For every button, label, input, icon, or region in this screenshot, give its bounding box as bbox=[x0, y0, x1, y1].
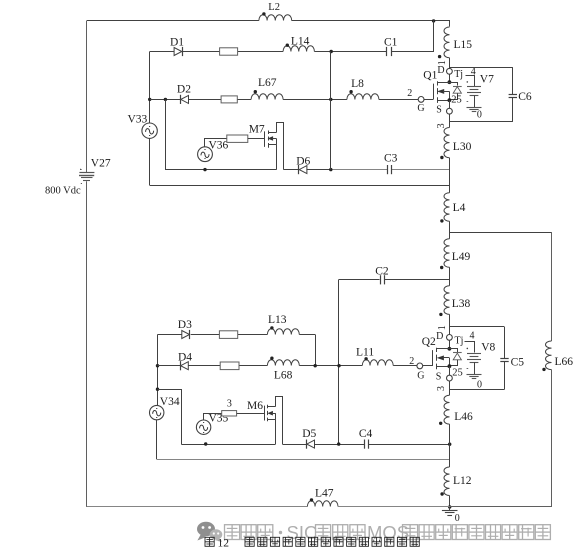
svg-text:D: D bbox=[437, 65, 444, 76]
svg-text:G: G bbox=[417, 103, 424, 114]
node: V36 bottom junction bbox=[203, 168, 206, 171]
wire: V33 to return bbox=[149, 138, 151, 185]
label pin 3 (Q2 source) bbox=[436, 386, 447, 391]
pin: Q1 gate terminal bbox=[418, 97, 424, 103]
svg-text:L67: L67 bbox=[258, 77, 277, 89]
node: V35 bottom junction bbox=[204, 442, 207, 445]
capacitor C5 bbox=[500, 357, 524, 369]
ground 0 (V7) bbox=[467, 108, 482, 112]
svg-text:2: 2 bbox=[409, 356, 414, 367]
label pin 1 (Q1 drain) bbox=[437, 60, 448, 65]
label 0 (V7) bbox=[477, 110, 482, 121]
node: C4 bus junction bbox=[448, 443, 451, 446]
resistor R-D1 bbox=[220, 48, 238, 55]
pin: Q2 source terminal bbox=[447, 375, 453, 381]
ground 0 (main) bbox=[442, 511, 458, 516]
wire: top bus right segment bbox=[292, 21, 450, 27]
diode D6 bbox=[296, 156, 310, 175]
wire: upper return row bbox=[150, 185, 450, 187]
node: gate row junction (upper) bbox=[329, 98, 332, 101]
pin: Q2 drain terminal bbox=[447, 335, 453, 341]
svg-text:C6: C6 bbox=[518, 91, 532, 103]
wire: source to S pin bbox=[449, 100, 451, 108]
wire: D6-C3 row bbox=[283, 169, 449, 171]
source V34 bbox=[150, 405, 164, 419]
label 4 (Q2) bbox=[470, 330, 475, 341]
resistor R-D3 bbox=[219, 331, 237, 339]
mosfet Q2 body bbox=[433, 348, 450, 370]
svg-text:L68: L68 bbox=[274, 369, 293, 381]
battery V8 bbox=[467, 348, 482, 369]
wire: L15 to D pin bbox=[449, 58, 451, 69]
wire: M6 source down bbox=[275, 419, 277, 444]
node: V35 branch junction bbox=[156, 388, 159, 391]
watermark text: SIC MOS bbox=[225, 522, 551, 543]
label 4 (Q1) bbox=[471, 67, 476, 78]
resistor R-M7gate bbox=[227, 135, 248, 142]
label S (Q2) bbox=[436, 372, 442, 383]
svg-text:25: 25 bbox=[452, 367, 463, 378]
wire: V7 to ground bbox=[474, 96, 476, 108]
label G (Q1) bbox=[417, 103, 424, 114]
resistor R-M6gate bbox=[222, 411, 237, 416]
svg-text:Tj: Tj bbox=[455, 335, 464, 346]
label Tj (Q2) bbox=[455, 335, 464, 346]
wire: source to S pin (Q2) bbox=[449, 366, 451, 375]
wire: V36 top lead bbox=[205, 139, 227, 147]
svg-text:12: 12 bbox=[218, 537, 230, 549]
svg-text:S: S bbox=[436, 105, 442, 116]
svg-text:M6: M6 bbox=[247, 400, 263, 412]
node: L68-L13 junction bbox=[314, 364, 317, 367]
wire: resistor to M7 gate bbox=[248, 138, 265, 140]
wire: D3 row left vertical bbox=[157, 335, 159, 406]
wire: M6 drain over-down bbox=[276, 397, 283, 445]
wire: C6 loop bottom bbox=[449, 121, 512, 123]
svg-text:V33: V33 bbox=[128, 114, 148, 126]
svg-text:L8: L8 bbox=[351, 78, 364, 90]
diode D5 bbox=[302, 428, 316, 449]
svg-text:L38: L38 bbox=[452, 298, 471, 310]
svg-text:3: 3 bbox=[227, 399, 232, 410]
svg-text:800 Vdc: 800 Vdc bbox=[45, 186, 81, 197]
inductor L38 bbox=[439, 286, 470, 316]
inductor L15 bbox=[438, 27, 472, 58]
wire: gate-net vertical (upper) bbox=[330, 52, 332, 170]
svg-text:1: 1 bbox=[437, 325, 448, 330]
svg-text:L47: L47 bbox=[315, 488, 334, 500]
transistor M7 bbox=[249, 124, 277, 148]
label Q2 bbox=[422, 336, 436, 348]
inductor L67 bbox=[251, 77, 283, 100]
inductor L46 bbox=[439, 395, 473, 425]
node: V36 branch junction bbox=[164, 98, 167, 101]
capacitor C1 bbox=[384, 36, 398, 56]
battery V27 bbox=[79, 169, 94, 184]
svg-text:G: G bbox=[417, 370, 424, 381]
svg-text:L11: L11 bbox=[356, 346, 374, 358]
capacitor C3 bbox=[384, 153, 398, 175]
label Tj (Q1) bbox=[454, 69, 463, 80]
pin: Q1 source terminal bbox=[447, 108, 453, 114]
wire: resistor to M6 gate bbox=[237, 413, 265, 415]
inductor L8 bbox=[347, 78, 379, 100]
svg-text:25: 25 bbox=[451, 94, 462, 105]
svg-text:V8: V8 bbox=[481, 341, 495, 353]
svg-text:V34: V34 bbox=[160, 396, 180, 408]
label V27 bbox=[91, 158, 111, 170]
inductor L30 bbox=[440, 128, 471, 160]
svg-text:M7: M7 bbox=[249, 124, 265, 136]
source V33 bbox=[142, 123, 157, 138]
inductor L12 bbox=[440, 467, 471, 496]
inductor L68 bbox=[267, 357, 299, 382]
svg-text:D4: D4 bbox=[178, 351, 192, 363]
wire: C6 loop top bbox=[449, 67, 512, 69]
svg-text:L2: L2 bbox=[268, 2, 280, 13]
inductor L47 bbox=[307, 488, 338, 507]
wire: D1 row left vertical bbox=[149, 52, 151, 123]
wire: C5 loop top bbox=[449, 326, 504, 328]
svg-text:D5: D5 bbox=[302, 428, 316, 440]
label V33 bbox=[128, 114, 148, 126]
label V7 bbox=[480, 74, 494, 86]
svg-text:D2: D2 bbox=[177, 84, 191, 96]
label 3 (M6 gate res) bbox=[227, 399, 232, 410]
node: Q1 drain bbox=[448, 80, 452, 84]
svg-text:C3: C3 bbox=[384, 153, 398, 165]
capacitor C2 bbox=[375, 266, 389, 285]
svg-text:L13: L13 bbox=[268, 314, 287, 326]
wire: left bus lower bbox=[86, 181, 88, 507]
wire: M7 source down bbox=[276, 145, 278, 170]
node: gate row junction (lower) bbox=[337, 364, 340, 367]
wire: D5-C4 row bbox=[283, 444, 450, 446]
label pin 3 (Q1 source) bbox=[436, 123, 447, 128]
wire: bus L49-L38 bbox=[449, 267, 451, 286]
wire: D3-D4 right vertical bbox=[315, 335, 317, 366]
svg-text:Q1: Q1 bbox=[423, 70, 437, 82]
wire: bus L12-ground bbox=[449, 496, 451, 508]
wire: M7 drain over-down bbox=[277, 123, 284, 170]
svg-text:L30: L30 bbox=[453, 141, 472, 153]
wire: D3 row segments bbox=[158, 334, 316, 336]
wire: C6 lower lead bbox=[512, 97, 514, 121]
wire: far-right vertical lower bbox=[450, 370, 552, 507]
label 25 (Q1) bbox=[451, 94, 462, 105]
label 25 (Q2) bbox=[452, 367, 463, 378]
svg-text:V27: V27 bbox=[91, 158, 111, 170]
wire: D pin to drain node bbox=[449, 74, 451, 82]
wire: V36 loop left+bottom bbox=[166, 100, 277, 170]
svg-text:C2: C2 bbox=[375, 266, 389, 278]
svg-text:D6: D6 bbox=[296, 156, 310, 168]
ground 0 (V8) bbox=[467, 375, 482, 379]
wire: C5 upper lead bbox=[504, 327, 506, 358]
wire: C2 row bbox=[339, 279, 450, 281]
node: C1 top junction bbox=[432, 19, 435, 22]
wire: C1 to top bus bbox=[392, 21, 434, 52]
wire: gate pin to Q2 bbox=[423, 365, 433, 367]
wire: V35 top lead bbox=[204, 414, 222, 421]
svg-text:C5: C5 bbox=[511, 357, 525, 369]
inductor L14 bbox=[283, 35, 314, 51]
svg-text:4: 4 bbox=[470, 330, 475, 341]
svg-text:Tj: Tj bbox=[454, 69, 463, 80]
label Q1 bbox=[423, 70, 437, 82]
svg-text:Q2: Q2 bbox=[422, 336, 436, 348]
svg-text:L46: L46 bbox=[454, 411, 473, 423]
svg-text:C1: C1 bbox=[384, 36, 398, 48]
source V35 bbox=[196, 420, 210, 434]
svg-text:2: 2 bbox=[407, 88, 412, 99]
svg-text:L15: L15 bbox=[454, 39, 473, 51]
node: D2 row / V33 junction bbox=[148, 98, 151, 101]
label S (Q1) bbox=[436, 105, 442, 116]
transistor M6 bbox=[247, 400, 276, 421]
diode D1 bbox=[170, 37, 184, 57]
diode D2 bbox=[177, 84, 191, 105]
wire: ground stub bbox=[449, 507, 451, 511]
wire: bus L46-L12 bbox=[449, 424, 451, 467]
svg-text:S: S bbox=[436, 372, 442, 383]
wire: V35 loop bottom bbox=[182, 444, 276, 446]
capacitor C4 bbox=[359, 428, 373, 449]
node: D4 row junction bbox=[156, 364, 159, 367]
wire: S pin to bus (Q2) bbox=[449, 381, 451, 395]
wire: top bus left segment bbox=[87, 20, 259, 22]
diode D4 bbox=[178, 351, 192, 370]
diode D3 bbox=[178, 319, 192, 339]
wire: lower return row bbox=[157, 459, 450, 461]
node: Q1 source bbox=[448, 98, 452, 102]
wire: gate pin to Q1 bbox=[424, 99, 433, 101]
wire: C6 upper lead bbox=[512, 67, 514, 94]
wire: C5 loop bottom bbox=[449, 389, 504, 391]
svg-text:0: 0 bbox=[455, 513, 460, 524]
pin: Q1 drain terminal bbox=[447, 68, 453, 74]
wire: bus L30-L4 bbox=[449, 158, 451, 193]
diode Q1-body bbox=[450, 83, 462, 100]
label V34 bbox=[160, 396, 180, 408]
wire: Tj lead (Q2) bbox=[465, 342, 475, 353]
label pin 1 (Q2 drain) bbox=[437, 325, 448, 330]
wire: left bus upper bbox=[86, 21, 88, 172]
node: Q2 source bbox=[448, 364, 452, 368]
label G (Q2) bbox=[417, 370, 424, 381]
inductor L2 bbox=[259, 2, 292, 21]
battery V7 bbox=[467, 81, 482, 101]
node: ground junction bbox=[448, 505, 451, 508]
wire: V35 branch bbox=[158, 390, 182, 445]
svg-text:3: 3 bbox=[436, 386, 447, 391]
wire: D1 row segments bbox=[150, 51, 387, 53]
inductor L13 bbox=[267, 314, 299, 335]
label pin 2 (Q1 gate) bbox=[407, 88, 412, 99]
caption text bbox=[205, 537, 419, 549]
watermark logo bbox=[197, 522, 222, 542]
svg-text:V36: V36 bbox=[209, 140, 229, 152]
wire: bottom bus right bbox=[338, 506, 450, 508]
wire: far-right vertical upper bbox=[551, 232, 553, 341]
wire: S pin to bus bbox=[449, 114, 451, 127]
label V35 bbox=[209, 413, 229, 425]
wire: D2 row segments bbox=[150, 99, 419, 101]
label D (Q2) bbox=[436, 331, 443, 342]
svg-text:L12: L12 bbox=[453, 475, 472, 487]
svg-text:V7: V7 bbox=[480, 74, 494, 86]
inductor L49 bbox=[440, 239, 470, 269]
capacitor C6 bbox=[509, 91, 532, 103]
mosfet Q1 body bbox=[434, 81, 450, 103]
node: C4 row junction bbox=[337, 442, 340, 445]
node: Q2 drain bbox=[448, 347, 452, 351]
svg-text:L66: L66 bbox=[555, 356, 574, 368]
wire: D pin to drain node (Q2) bbox=[449, 340, 451, 349]
node: C1 row junction bbox=[330, 50, 333, 53]
diode Q2-body bbox=[450, 349, 462, 366]
label V36 bbox=[209, 140, 229, 152]
wire: D4 row segments bbox=[158, 365, 417, 367]
svg-text:0: 0 bbox=[477, 379, 482, 390]
wire: bottom bus left bbox=[87, 506, 308, 508]
wire: branch to L66 bbox=[449, 232, 551, 234]
wire: bus L4-L49 bbox=[449, 221, 451, 239]
label pin 2 (Q2 gate) bbox=[409, 356, 414, 367]
svg-text:L14: L14 bbox=[291, 35, 310, 47]
wire: C5 lower lead bbox=[504, 361, 506, 389]
svg-text:C4: C4 bbox=[359, 428, 373, 440]
resistor R-D4 bbox=[220, 362, 239, 370]
wire: bus L38-Q2 bbox=[449, 314, 451, 334]
svg-text:4: 4 bbox=[471, 67, 476, 78]
svg-text:D3: D3 bbox=[178, 319, 192, 331]
inductor L11 bbox=[356, 346, 393, 365]
svg-text:L49: L49 bbox=[452, 251, 471, 263]
label D (Q1) bbox=[437, 65, 444, 76]
label 0 (V8) bbox=[477, 379, 482, 390]
wire: gate-net vertical (lower) bbox=[338, 280, 340, 444]
inductor L4 bbox=[440, 193, 465, 223]
svg-text:D1: D1 bbox=[170, 37, 184, 49]
wire: Tj lead bbox=[466, 76, 475, 87]
wire: V34 to return bbox=[156, 420, 158, 460]
source V36 bbox=[198, 147, 213, 162]
pin: Q2 gate terminal bbox=[417, 363, 423, 369]
inductor L66 bbox=[542, 341, 573, 371]
svg-text:3: 3 bbox=[436, 123, 447, 128]
label 800 Vdc bbox=[45, 186, 81, 197]
svg-text:0: 0 bbox=[477, 110, 482, 121]
node: C3 row junction bbox=[329, 168, 332, 171]
label V8 bbox=[481, 341, 495, 353]
resistor R-D2 bbox=[221, 96, 237, 103]
svg-text:L4: L4 bbox=[453, 202, 466, 214]
svg-text:D: D bbox=[436, 331, 443, 342]
label 0 (main) bbox=[455, 513, 460, 524]
wire: V8 to ground bbox=[474, 362, 476, 374]
